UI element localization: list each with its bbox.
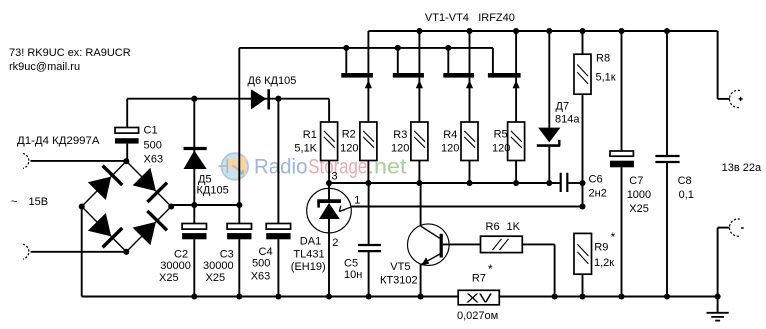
svg-text:2н2: 2н2 [589,187,607,199]
svg-text:R4: R4 [443,129,457,141]
node gate bus R5 [513,180,519,186]
resistor R9 [574,233,592,274]
wire bottom rail right [499,296,717,298]
svg-text:30000: 30000 [203,260,234,272]
diode D6 [251,89,266,109]
svg-text:X25: X25 [159,272,179,284]
node gate bus D7/C6 [546,180,552,186]
svg-text:C2: C2 [174,248,188,260]
svg-text:Д7: Д7 [556,100,570,112]
transistor VT5 KT3102 [420,183,422,226]
capacitor C1 [126,99,128,128]
node bridge right [168,203,174,209]
svg-text:C6: C6 [589,173,603,185]
svg-text:КД105: КД105 [197,185,229,197]
node aux D6 cathode junction [275,96,281,102]
svg-text:0,027ом: 0,027ом [457,310,498,322]
svg-text:C1: C1 [144,125,158,137]
svg-text:~: ~ [11,196,17,208]
svg-text:C4: C4 [259,246,273,258]
diode D4 [133,222,156,245]
node bottom rail C2 [191,293,197,299]
node gate bus R3/VT5 [416,180,422,186]
capacitor C5 [368,183,370,245]
svg-text:120: 120 [492,143,510,155]
node bottom rail C4 [275,293,281,299]
svg-text:1,2к: 1,2к [594,257,614,269]
capacitor C3 [238,205,240,224]
svg-text:X25: X25 [629,203,649,215]
wire bridge arm T-R [126,161,171,206]
svg-text:C5: C5 [344,257,358,269]
svg-text:10н: 10н [344,269,362,281]
svg-text:Radio: Radio [254,156,308,179]
svg-text:R2: R2 [342,129,356,141]
node drain feed VT1 [343,45,349,51]
svg-text:15В: 15В [29,196,49,208]
node C3 junction [236,202,242,208]
node bottom rail R6 [552,293,558,299]
svg-text:1K: 1K [507,221,521,233]
capacitor C2 [193,205,195,224]
svg-text:R1: R1 [303,129,317,141]
node gate bus C6/R8 [579,180,585,186]
svg-text:120: 120 [391,143,409,155]
svg-text:X63: X63 [144,154,164,166]
node source rail VT2 [416,28,422,34]
svg-text:C3: C3 [220,248,234,260]
svg-text:814а: 814а [555,113,580,125]
svg-text:C8: C8 [678,175,692,187]
svg-text:1000: 1000 [627,189,651,201]
svg-text:TL431: TL431 [293,248,324,260]
resistor R7 shunt [458,290,499,305]
node bottom rail C8 [664,293,670,299]
svg-text:R6: R6 [486,221,500,233]
svg-text:13в 22а: 13в 22а [722,162,762,174]
transistor VT4 [492,48,494,74]
capacitor C6 [560,173,562,192]
node source rail C7 [618,28,624,34]
svg-text:*: * [488,262,493,276]
svg-text:VT1-VT4: VT1-VT4 [425,12,469,24]
resistor R5 [508,122,525,161]
node source rail R8 [579,28,585,34]
wire output plus drop [717,31,719,99]
svg-text:120: 120 [340,143,358,155]
svg-text:R5: R5 [494,129,508,141]
svg-text:*: * [611,230,616,244]
svg-text:rk9uc@mail.ru: rk9uc@mail.ru [9,61,80,73]
wire gate bus [329,182,560,184]
svg-text:R3: R3 [393,129,407,141]
svg-text:R7: R7 [472,273,486,285]
wire drain feed [239,47,493,49]
svg-text:5,1к: 5,1к [596,72,616,84]
capacitor C8 [666,31,668,156]
wire aux boost rail [127,98,329,100]
node aux D5 junction [191,96,197,102]
svg-text:DA1: DA1 [300,236,321,248]
op-amp U1 TL431 DA1 [328,183,330,200]
transistor VT2 [397,48,399,74]
capacitor C7 [621,31,623,151]
node gate bus R2/C5 [365,180,371,186]
resistor R8 [582,31,584,54]
node bottom rail C5 [366,293,372,299]
svg-text:3: 3 [332,171,338,183]
svg-text:2: 2 [332,237,338,249]
svg-text:30000: 30000 [160,260,191,272]
node bottom rail VT5 [418,293,424,299]
wire feedback tap [351,206,582,208]
wire bottom rail left [82,296,459,298]
wire output minus drop [718,227,730,229]
resistor R1 [328,99,330,122]
svg-text:IRFZ40: IRFZ40 [478,12,515,24]
node feedback tap R8/R9 [579,203,585,209]
wire bridge plus [171,204,239,206]
svg-text:(ЕН19): (ЕН19) [291,261,326,273]
svg-text:1: 1 [354,195,360,207]
node C2 junction [191,202,197,208]
svg-text:120: 120 [441,143,459,155]
diode D3 [88,213,111,236]
node bridge left [79,203,85,209]
node bridge top [123,158,129,164]
svg-text:Д1-Д4 КД2997А: Д1-Д4 КД2997А [17,135,100,147]
wire bridge arm L-B [82,207,127,252]
svg-text:Д5: Д5 [198,173,212,185]
ground [717,297,719,313]
node drain feed VT2 [395,45,401,51]
node source rail VT3 [466,28,472,34]
output terminal minus [729,219,739,236]
resistor R3 [411,122,428,161]
svg-text:500: 500 [144,140,162,152]
svg-text:X63: X63 [251,270,271,282]
output terminal plus [729,90,739,107]
node bottom rail minus [715,293,721,299]
diode D5 [193,99,195,205]
decorative watermark logo [219,153,249,180]
svg-text:VT5: VT5 [390,261,410,273]
wire raw plus vertical [238,48,240,205]
wire bridge minus down [81,207,83,297]
svg-text:X25: X25 [206,272,226,284]
AC input terminal top [23,153,29,168]
transistor VT1 [345,48,347,74]
transistor VT3 [447,48,449,74]
wire bridge arm L-T [82,161,127,206]
node drain feed VT3 [445,45,451,51]
node bottom rail C7 [618,293,624,299]
svg-text:Д6 КД105: Д6 КД105 [248,75,297,87]
node bridge bottom [123,249,129,255]
diode D2 [133,168,156,191]
svg-text:КТ3102: КТ3102 [380,274,418,286]
AC input terminal bottom [23,244,29,259]
resistor R6 [443,243,481,245]
resistor R4 [461,122,478,161]
svg-text:ХV: ХV [466,291,492,306]
diode D1 [88,177,111,200]
wire bridge arm B-R [126,207,171,252]
zener D7 [548,31,550,128]
svg-text:500: 500 [252,258,270,270]
node source rail C8 [664,28,670,34]
svg-text:5,1K: 5,1K [294,142,317,154]
wire AC top input to bridge [31,160,127,162]
svg-text:C7: C7 [629,175,643,187]
wire AC bottom input to bridge [31,251,127,253]
svg-text:R8: R8 [596,53,610,65]
wire source output rail [368,30,717,32]
resistor R2 [360,122,377,161]
svg-text:0,1: 0,1 [679,189,694,201]
svg-text:R9: R9 [594,242,608,254]
node bottom rail C3 [236,293,242,299]
node bottom rail DA1 [326,293,332,299]
svg-text:73! RK9UC ex: RA9UCR: 73! RK9UC ex: RA9UCR [9,47,131,59]
node gate bus R1/DA1 [326,180,332,186]
node source rail VT4 [513,28,519,34]
capacitor C4 [277,99,279,224]
node source rail D7 [546,28,552,34]
node gate bus R4 [466,180,472,186]
node bottom rail R9 [579,293,585,299]
